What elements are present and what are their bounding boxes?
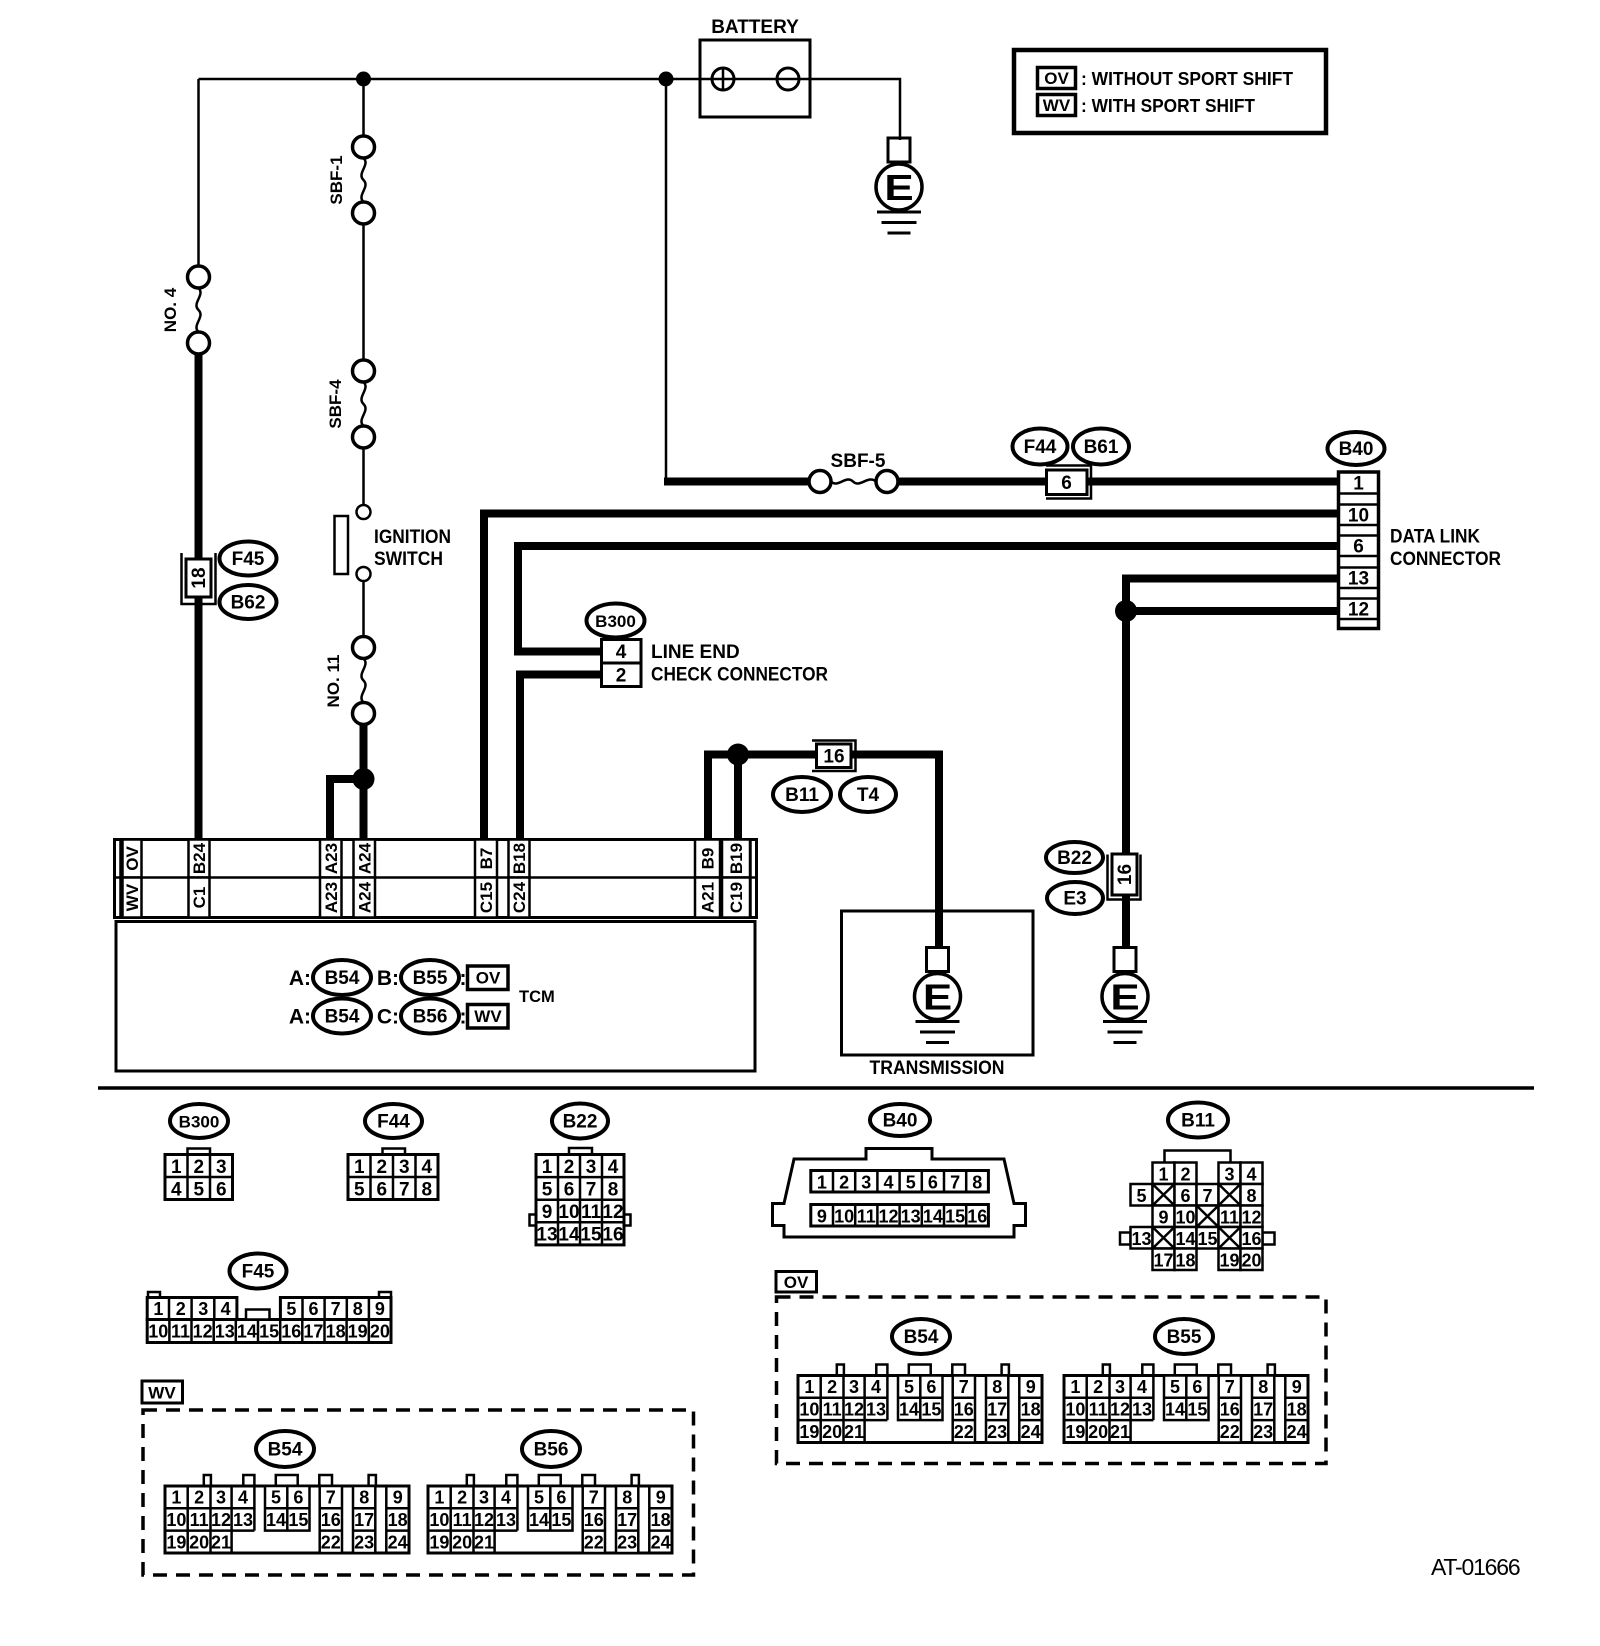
svg-text:18: 18 — [388, 1510, 408, 1530]
svg-text:20: 20 — [1241, 1250, 1261, 1270]
svg-text:1: 1 — [1353, 473, 1364, 494]
ignition switch — [335, 505, 452, 581]
connector label B56 — [401, 999, 459, 1034]
svg-text:22: 22 — [321, 1532, 341, 1552]
svg-text:18: 18 — [1175, 1250, 1195, 1270]
connector label B11 — [773, 777, 831, 812]
svg-text:9: 9 — [1158, 1207, 1168, 1227]
svg-text:13: 13 — [1131, 1229, 1151, 1249]
svg-text:WV: WV — [474, 1007, 502, 1026]
svg-text:12: 12 — [1241, 1207, 1261, 1227]
svg-text:12: 12 — [844, 1400, 864, 1420]
svg-text:1: 1 — [434, 1488, 444, 1508]
svg-text:2: 2 — [194, 1488, 204, 1508]
svg-text:5: 5 — [534, 1488, 544, 1508]
svg-text:10: 10 — [429, 1510, 449, 1530]
svg-text:1: 1 — [153, 1299, 163, 1319]
svg-text:NO. 4: NO. 4 — [161, 287, 180, 332]
connector label B54 pinout (OV) — [892, 1319, 950, 1354]
svg-text:SBF-4: SBF-4 — [326, 379, 345, 429]
OV variant dashed box — [777, 1297, 1327, 1464]
svg-text:6: 6 — [556, 1488, 566, 1508]
svg-text:13: 13 — [1132, 1400, 1152, 1420]
wire battery junction down to SBF-5 — [665, 79, 668, 482]
battery — [700, 17, 810, 117]
svg-text:A23: A23 — [322, 843, 341, 874]
svg-text:3: 3 — [586, 1157, 597, 1178]
svg-text:CHECK CONNECTOR: CHECK CONNECTOR — [651, 665, 828, 686]
wire TCM B9 to transmission (thick) — [708, 755, 939, 949]
wire to SBF-5 fuse (thick) — [664, 478, 809, 486]
svg-text:6: 6 — [1180, 1186, 1190, 1206]
svg-text:16: 16 — [954, 1400, 974, 1420]
svg-text:8: 8 — [421, 1179, 432, 1200]
svg-text:4: 4 — [1246, 1164, 1256, 1184]
svg-text:12: 12 — [474, 1510, 494, 1530]
connector pinout B55 (OV) — [1064, 1365, 1308, 1443]
svg-text::: : — [460, 1006, 467, 1029]
svg-text:11: 11 — [1220, 1207, 1239, 1227]
wire SBF-1 to SBF-4 — [362, 224, 365, 360]
svg-text:2: 2 — [176, 1299, 186, 1319]
connector B11/T4 pin 16 pass-through — [812, 741, 856, 772]
connector label B40 — [1328, 432, 1385, 465]
svg-text:16: 16 — [281, 1322, 301, 1342]
svg-text:20: 20 — [1088, 1422, 1108, 1442]
svg-text:18: 18 — [1287, 1400, 1307, 1420]
transmission box — [842, 911, 1034, 1079]
connector label F44 pinout — [365, 1104, 422, 1138]
svg-text:4: 4 — [1137, 1377, 1147, 1397]
svg-text:AT-01666: AT-01666 — [1431, 1554, 1520, 1580]
svg-text:B62: B62 — [231, 593, 266, 614]
wire TCM B7 to DLC pin 10 (thick) — [484, 514, 1339, 843]
connector label F44 — [1013, 429, 1068, 465]
svg-text:6: 6 — [1353, 536, 1364, 557]
fuse SBF-1 — [327, 136, 375, 224]
svg-text:17: 17 — [987, 1400, 1007, 1420]
svg-text:14: 14 — [899, 1400, 919, 1420]
svg-text:8: 8 — [359, 1488, 369, 1508]
separator line — [98, 1086, 1534, 1090]
svg-text:10: 10 — [834, 1207, 854, 1227]
node junction below NO.11 — [353, 768, 375, 790]
connector label B54 pinout (WV) — [256, 1431, 314, 1467]
svg-text:14: 14 — [1165, 1400, 1185, 1420]
svg-text:16: 16 — [967, 1207, 987, 1227]
svg-text:B54: B54 — [325, 968, 360, 989]
TCM pin cell B18/C24 — [509, 840, 530, 878]
svg-text:6: 6 — [308, 1299, 318, 1319]
svg-text:1: 1 — [171, 1488, 181, 1508]
connector pinout F45 — [147, 1292, 391, 1343]
connector label F45 pinout — [230, 1254, 287, 1289]
svg-text:23: 23 — [354, 1532, 374, 1552]
svg-text:23: 23 — [1253, 1422, 1273, 1442]
svg-text:A24: A24 — [355, 842, 374, 874]
svg-text:7: 7 — [586, 1179, 597, 1200]
svg-text:9: 9 — [542, 1202, 553, 1223]
svg-text:7: 7 — [1202, 1186, 1212, 1206]
svg-text:21: 21 — [474, 1532, 494, 1552]
svg-text:12: 12 — [211, 1510, 231, 1530]
connector label B300 — [587, 604, 645, 638]
svg-text:8: 8 — [622, 1488, 632, 1508]
svg-text:10: 10 — [1065, 1400, 1085, 1420]
svg-text:15: 15 — [1187, 1400, 1207, 1420]
svg-text:10: 10 — [148, 1322, 168, 1342]
TCM pin cell A23/A23 — [320, 840, 342, 878]
svg-text:16: 16 — [1241, 1229, 1261, 1249]
svg-text:C1: C1 — [190, 887, 209, 909]
TCM — [116, 922, 755, 1072]
svg-text:6: 6 — [1192, 1377, 1202, 1397]
svg-text:24: 24 — [388, 1532, 408, 1552]
TCM pin cell B19/C19 — [722, 840, 750, 878]
connector label T4 — [840, 777, 896, 812]
wire SBF-4 to ignition switch — [362, 448, 365, 505]
svg-text:15: 15 — [551, 1510, 571, 1530]
svg-text:7: 7 — [959, 1377, 969, 1397]
svg-text:24: 24 — [1287, 1422, 1307, 1442]
fuse NO. 4 — [161, 266, 210, 354]
svg-text:B11: B11 — [785, 785, 819, 806]
svg-text:6: 6 — [1061, 473, 1072, 494]
svg-text:8: 8 — [608, 1179, 619, 1200]
connector label E3 — [1047, 882, 1103, 914]
svg-text:12: 12 — [193, 1322, 213, 1342]
svg-text:1: 1 — [354, 1157, 365, 1178]
svg-text:17: 17 — [1253, 1400, 1273, 1420]
svg-text:SBF-1: SBF-1 — [327, 155, 346, 204]
svg-text:19: 19 — [1219, 1250, 1239, 1270]
svg-text:19: 19 — [799, 1422, 819, 1442]
connector label B61 — [1073, 429, 1129, 465]
wire TCM B18 to line end check pin 2 (thick) — [520, 675, 602, 843]
connector pinout B22 — [569, 1148, 592, 1155]
wire NO.11 down to TCM A24 (thick) — [360, 724, 368, 842]
svg-text:2: 2 — [193, 1157, 204, 1178]
fuse SBF-5 — [809, 451, 898, 493]
svg-text:13: 13 — [866, 1400, 886, 1420]
svg-text:11: 11 — [581, 1202, 602, 1223]
svg-text:21: 21 — [1110, 1422, 1130, 1442]
svg-text:12: 12 — [602, 1202, 623, 1223]
svg-text:3: 3 — [849, 1377, 859, 1397]
svg-text:B22: B22 — [563, 1112, 598, 1133]
svg-text:A:: A: — [289, 967, 311, 990]
wire branch to TCM A23 (thick) — [330, 779, 364, 842]
svg-text:20: 20 — [822, 1422, 842, 1442]
svg-text:SBF-5: SBF-5 — [831, 451, 886, 472]
svg-text:1: 1 — [171, 1157, 182, 1178]
svg-text:22: 22 — [954, 1422, 974, 1442]
svg-text:B11: B11 — [1181, 1111, 1215, 1132]
wire junction to SBF-1 — [362, 79, 365, 136]
svg-text:7: 7 — [331, 1299, 341, 1319]
TCM pin cell B24/C1 — [189, 840, 210, 878]
wire battery negative to ground — [810, 79, 900, 140]
svg-text:C:: C: — [377, 1006, 399, 1029]
wire TCM B19 up to junction (thick) — [734, 755, 742, 843]
svg-text:6: 6 — [376, 1179, 387, 1200]
svg-text:: WITH SPORT SHIFT: : WITH SPORT SHIFT — [1081, 95, 1256, 116]
connector B22/E3 pin 16 pass-through — [1108, 854, 1141, 900]
svg-text:17: 17 — [1153, 1250, 1173, 1270]
wire battery feed top horizontal — [199, 78, 811, 81]
svg-text:B56: B56 — [534, 1440, 569, 1461]
svg-text:16: 16 — [823, 747, 844, 768]
svg-text:16: 16 — [584, 1510, 604, 1530]
connector pinout B54 (OV) — [798, 1365, 1042, 1443]
svg-text:18: 18 — [189, 567, 210, 588]
svg-text:19: 19 — [348, 1322, 368, 1342]
svg-text:20: 20 — [189, 1532, 209, 1552]
svg-text:3: 3 — [399, 1157, 410, 1178]
svg-text:F44: F44 — [377, 1112, 410, 1133]
svg-text:23: 23 — [617, 1532, 637, 1552]
svg-text:10: 10 — [166, 1510, 186, 1530]
svg-text:B22: B22 — [1057, 848, 1092, 869]
svg-text:WV: WV — [123, 883, 142, 911]
svg-text:13: 13 — [215, 1322, 235, 1342]
wire ignition switch to NO.11 — [362, 581, 365, 636]
svg-text:14: 14 — [529, 1510, 549, 1530]
connector B300 line end check — [602, 640, 829, 687]
connector pinout B56 (WV) — [428, 1475, 672, 1553]
svg-text:2: 2 — [827, 1377, 837, 1397]
OV variant label — [776, 1272, 817, 1293]
svg-text:E: E — [884, 168, 913, 208]
svg-text:8: 8 — [1246, 1186, 1256, 1206]
svg-text:4: 4 — [501, 1488, 511, 1508]
svg-text:B54: B54 — [325, 1007, 360, 1028]
svg-text:3: 3 — [198, 1299, 208, 1319]
svg-text:OV: OV — [476, 969, 501, 988]
wire DLC pin 13 down (thick) — [1126, 579, 1339, 855]
svg-text:16: 16 — [1220, 1400, 1240, 1420]
svg-text:4: 4 — [871, 1377, 881, 1397]
svg-text:B40: B40 — [883, 1111, 918, 1132]
svg-text:E: E — [923, 977, 952, 1017]
svg-text:9: 9 — [375, 1299, 385, 1319]
svg-text:6: 6 — [216, 1179, 227, 1200]
svg-text:B54: B54 — [268, 1440, 303, 1461]
svg-text:B24: B24 — [190, 842, 209, 874]
svg-text:NO. 11: NO. 11 — [324, 655, 343, 708]
svg-text:F45: F45 — [232, 549, 265, 570]
connector label B22 — [1046, 842, 1103, 873]
svg-text:OV: OV — [784, 1273, 809, 1292]
svg-text:14: 14 — [266, 1510, 286, 1530]
svg-text:B19: B19 — [727, 843, 746, 874]
connector label B11 pinout — [1168, 1103, 1228, 1138]
svg-text:17: 17 — [303, 1322, 323, 1342]
connector pinout B300 — [188, 1149, 211, 1155]
svg-text:SWITCH: SWITCH — [374, 549, 443, 570]
legend box — [1014, 50, 1326, 133]
svg-text:16: 16 — [602, 1225, 623, 1246]
connector label B300 pinout — [170, 1104, 228, 1138]
connector label B55 pinout (OV) — [1155, 1319, 1213, 1354]
svg-text:4: 4 — [616, 642, 627, 663]
svg-text:17: 17 — [617, 1510, 637, 1530]
svg-text:15: 15 — [921, 1400, 941, 1420]
svg-text:20: 20 — [370, 1322, 390, 1342]
svg-text:A24: A24 — [355, 881, 374, 913]
svg-text:DATA LINK: DATA LINK — [1390, 527, 1480, 548]
svg-text:1: 1 — [1070, 1377, 1080, 1397]
svg-text:B300: B300 — [595, 612, 636, 631]
svg-text:B300: B300 — [179, 1113, 220, 1132]
svg-text:5: 5 — [542, 1179, 553, 1200]
svg-text:IGNITION: IGNITION — [374, 527, 451, 548]
svg-text:13: 13 — [536, 1225, 557, 1246]
svg-text:5: 5 — [193, 1179, 204, 1200]
svg-text:4: 4 — [238, 1488, 248, 1508]
svg-text:6: 6 — [926, 1377, 936, 1397]
svg-text:10: 10 — [558, 1202, 579, 1223]
ground E transmission — [915, 948, 961, 1043]
svg-text:18: 18 — [326, 1322, 346, 1342]
svg-text:CONNECTOR: CONNECTOR — [1390, 549, 1501, 570]
svg-text:8: 8 — [972, 1173, 982, 1193]
svg-text:3: 3 — [216, 1157, 227, 1178]
connector F45/B62 pin 18 pass-through — [182, 553, 216, 604]
svg-text:WV: WV — [148, 1384, 176, 1403]
svg-text:15: 15 — [288, 1510, 308, 1530]
svg-text:TCM: TCM — [519, 988, 555, 1006]
wire SBF-5 to DLC pin 1 (thick) — [898, 478, 1339, 486]
svg-text:11: 11 — [190, 1510, 209, 1530]
svg-text:12: 12 — [1348, 599, 1369, 620]
svg-text:F44: F44 — [1024, 437, 1057, 458]
svg-text:24: 24 — [1021, 1422, 1041, 1442]
svg-text:B55: B55 — [413, 968, 448, 989]
svg-text:3: 3 — [479, 1488, 489, 1508]
svg-text:22: 22 — [1220, 1422, 1240, 1442]
TCM pin cell B9/A21 — [695, 840, 720, 878]
svg-text:22: 22 — [584, 1532, 604, 1552]
svg-text:21: 21 — [211, 1532, 231, 1552]
wire DLC pin 6 to line end check pin 4 (thick) — [518, 546, 1339, 652]
svg-text:7: 7 — [326, 1488, 336, 1508]
connector pinout B40 — [773, 1149, 1026, 1238]
svg-text:6: 6 — [928, 1173, 938, 1193]
svg-text:4: 4 — [883, 1173, 893, 1193]
svg-text:16: 16 — [1115, 864, 1136, 885]
svg-text:B56: B56 — [413, 1007, 448, 1028]
svg-text:14: 14 — [558, 1225, 580, 1246]
svg-text:: WITHOUT SPORT SHIFT: : WITHOUT SPORT SHIFT — [1081, 68, 1294, 89]
svg-text:17: 17 — [354, 1510, 374, 1530]
svg-text:13: 13 — [1348, 568, 1369, 589]
WV variant dashed box — [143, 1410, 694, 1575]
node junction at SBF-5 branch — [659, 72, 674, 87]
svg-text:B:: B: — [377, 967, 399, 990]
svg-text:11: 11 — [171, 1322, 190, 1342]
connector label B55 — [401, 960, 459, 995]
svg-text:TRANSMISSION: TRANSMISSION — [870, 1058, 1005, 1079]
svg-text:5: 5 — [904, 1377, 914, 1397]
svg-text:18: 18 — [1021, 1400, 1041, 1420]
svg-text:14: 14 — [237, 1322, 257, 1342]
svg-text:18: 18 — [651, 1510, 671, 1530]
svg-text:1: 1 — [817, 1173, 827, 1193]
svg-text:9: 9 — [817, 1207, 827, 1227]
svg-text:19: 19 — [166, 1532, 186, 1552]
svg-text:15: 15 — [580, 1225, 602, 1246]
svg-text:A21: A21 — [699, 882, 718, 913]
svg-text:B40: B40 — [1339, 439, 1374, 460]
svg-text:E: E — [1110, 977, 1139, 1017]
svg-text:OV: OV — [1044, 69, 1069, 88]
svg-text:5: 5 — [906, 1173, 916, 1193]
svg-text:13: 13 — [901, 1207, 921, 1227]
connector label B40 pinout — [870, 1104, 930, 1136]
svg-text:11: 11 — [453, 1510, 472, 1530]
svg-text:9: 9 — [1292, 1377, 1302, 1397]
wire left branch down — [197, 79, 200, 266]
connector label B56 pinout (WV) — [522, 1431, 580, 1467]
fuse NO. 11 — [324, 637, 375, 725]
svg-text:4: 4 — [171, 1179, 182, 1200]
svg-text:T4: T4 — [857, 785, 880, 806]
svg-text:5: 5 — [1170, 1377, 1180, 1397]
svg-text:11: 11 — [823, 1400, 842, 1420]
svg-text:19: 19 — [429, 1532, 449, 1552]
wire junction down to B22/E3 connector and ground (thick) — [1122, 611, 1130, 948]
svg-text:C15: C15 — [477, 882, 496, 913]
node junction pin12/pin13 wires — [1115, 600, 1137, 622]
svg-text:BATTERY: BATTERY — [711, 17, 799, 38]
svg-text:5: 5 — [286, 1299, 296, 1319]
svg-text:C24: C24 — [510, 881, 529, 913]
WV variant label — [142, 1381, 183, 1403]
connector label B54 — [313, 999, 371, 1034]
svg-text:3: 3 — [1224, 1164, 1234, 1184]
svg-text:OV: OV — [123, 846, 142, 871]
svg-text:A:: A: — [289, 1006, 311, 1029]
svg-text:15: 15 — [1197, 1229, 1217, 1249]
svg-text:2: 2 — [564, 1157, 575, 1178]
svg-text:23: 23 — [987, 1422, 1007, 1442]
svg-text:4: 4 — [608, 1157, 619, 1178]
svg-text:2: 2 — [1093, 1377, 1103, 1397]
svg-text:3: 3 — [1115, 1377, 1125, 1397]
svg-text:2: 2 — [616, 666, 627, 687]
svg-text:B18: B18 — [510, 843, 529, 874]
svg-text::: : — [460, 967, 467, 990]
node junction B9/B19 — [727, 744, 749, 766]
svg-text:C19: C19 — [727, 882, 746, 913]
TCM pin cell OV/WV — [123, 840, 143, 878]
fuse SBF-4 — [326, 360, 375, 448]
svg-text:B61: B61 — [1084, 437, 1119, 458]
svg-text:F45: F45 — [242, 1262, 275, 1283]
svg-text:2: 2 — [457, 1488, 467, 1508]
svg-text:1: 1 — [804, 1377, 814, 1397]
svg-text:13: 13 — [233, 1510, 253, 1530]
svg-text:11: 11 — [1089, 1400, 1108, 1420]
svg-text:8: 8 — [353, 1299, 363, 1319]
TCM connector strip — [115, 840, 757, 918]
connector label F45 — [220, 542, 277, 576]
svg-text:10: 10 — [799, 1400, 819, 1420]
connector label B62 — [220, 585, 277, 619]
svg-text:B54: B54 — [904, 1327, 939, 1348]
svg-text:9: 9 — [1026, 1377, 1036, 1397]
